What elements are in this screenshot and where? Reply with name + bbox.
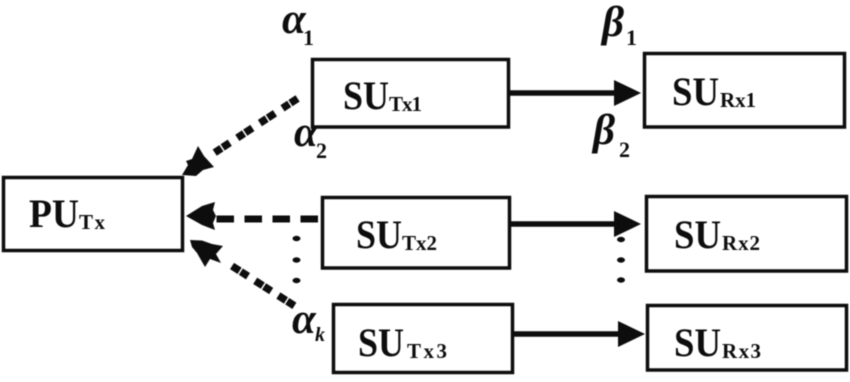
svg-text:Tx: Tx [79,210,106,234]
svg-text:2: 2 [619,137,630,162]
svg-text:Rx2: Rx2 [722,231,760,255]
svg-text:SU: SU [674,212,721,257]
svg-text:SU: SU [358,320,404,365]
svg-text:Tx3: Tx3 [407,339,447,363]
svg-text:SU: SU [356,212,402,257]
svg-text:SU: SU [343,73,389,118]
svg-text:β: β [600,0,624,46]
svg-text:Tx1: Tx1 [389,92,422,116]
svg-text:SU: SU [674,320,721,365]
svg-text:2: 2 [316,138,327,163]
svg-text:1: 1 [626,25,637,50]
svg-text:β: β [591,107,615,154]
svg-text:1: 1 [303,25,314,50]
svg-text:k: k [315,324,325,346]
svg-text:Tx2: Tx2 [402,231,437,255]
svg-text:PU: PU [29,191,79,236]
svg-text:Rx1: Rx1 [720,88,756,112]
svg-text:SU: SU [672,69,719,114]
svg-text:Rx3: Rx3 [722,339,761,363]
